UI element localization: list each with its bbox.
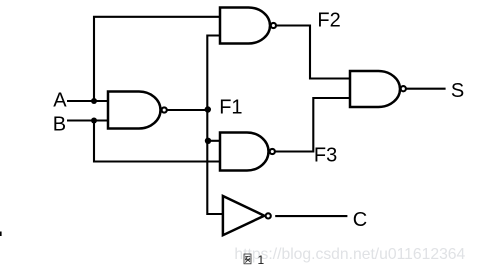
junction dot F3 branch [205,138,211,144]
wire F3 to S gate lower input [275,98,350,152]
svg-text:1: 1 [258,253,265,267]
wire input B [67,119,109,121]
svg-text:C: C [353,209,367,231]
wire A to top gate [94,17,220,101]
wire C output [275,215,347,217]
wire F1 output [167,109,208,111]
wire F2 to S gate upper input [276,26,350,79]
edge artifact [0,232,2,237]
svg-text:A: A [53,90,67,112]
inverter U1 (F1 -> C) [223,196,271,235]
svg-text:https://blog.csdn.net/u0116123: https://blog.csdn.net/u011612364 [234,246,465,263]
wire F1 vertical bus to top gate, F3 gate and inverter [207,36,223,215]
svg-text:S: S [451,80,464,102]
junction dot on B [91,118,97,124]
caption figure 1 glyph [244,254,251,264]
wire stub to F3 upper input [207,140,220,142]
svg-text:F2: F2 [317,10,340,32]
wire B to F3 gate lower input [94,121,220,162]
junction dot on A [91,98,97,104]
nand gate G2 top (-> F2) [220,8,276,44]
nand gate G3 (-> F3) [220,133,275,171]
svg-text:F1: F1 [219,97,242,119]
wire input A [67,100,109,102]
wire S output [406,88,445,90]
svg-text:F3: F3 [314,145,337,167]
nand gate G1 (A,B -> F1) [108,92,167,129]
nand gate G4 (-> S) [350,71,406,107]
node F1 junction dot [205,106,211,112]
svg-text:B: B [53,113,66,135]
